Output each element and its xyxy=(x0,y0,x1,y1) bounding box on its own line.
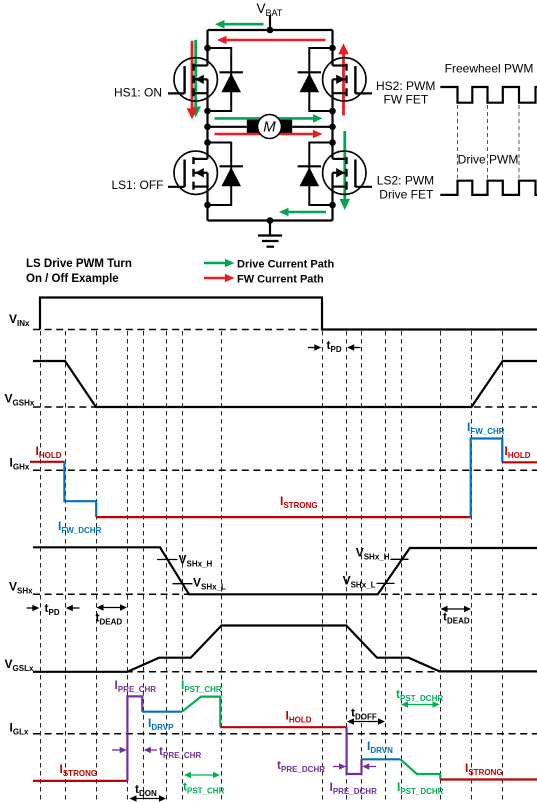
node junction right leg xyxy=(329,45,336,52)
body diode of HS2 xyxy=(298,72,321,92)
node IGLx baseline xyxy=(33,733,537,735)
annotation tDOFF xyxy=(347,706,385,725)
node VGSHx baseline xyxy=(33,406,537,408)
waveform VINx xyxy=(40,298,537,330)
svg-text:FW Current Path: FW Current Path xyxy=(237,274,324,286)
node VSHx_H tick left xyxy=(157,559,178,561)
green drive current arrow to motor xyxy=(215,117,315,120)
node VSHx_L tick left xyxy=(173,583,193,585)
node junction right leg xyxy=(329,108,336,115)
annotation tDON xyxy=(130,782,167,802)
red legend arrow FW Current Path xyxy=(204,277,226,279)
svg-text:Freewheel PWM: Freewheel PWM xyxy=(445,62,534,76)
annotation tDEAD left xyxy=(96,604,128,626)
waveform IGLx IPST_DCHR green xyxy=(400,759,440,779)
transistor LS1 xyxy=(168,151,217,194)
node VGSLx baseline xyxy=(33,671,537,673)
waveform VGSHx xyxy=(33,361,537,407)
annotation tPST_CHR xyxy=(183,772,225,796)
waveform IGHx IHOLD red left xyxy=(30,461,64,463)
waveform Freewheel PWM xyxy=(440,87,537,103)
wire left leg upper xyxy=(206,30,208,66)
node VINx baseline xyxy=(33,329,322,331)
annotation tPD upper xyxy=(308,338,361,354)
wire right leg upper xyxy=(331,30,333,66)
svg-text:M: M xyxy=(263,119,276,136)
wire dashed PWM phase connectors xyxy=(457,105,459,179)
red freewheel current arrow through HS2 xyxy=(342,53,345,115)
waveform IGLx IHOLD red middle xyxy=(220,726,346,728)
annotation tPRE_DCHR xyxy=(277,758,376,774)
svg-text:LS Drive PWM Turn: LS Drive PWM Turn xyxy=(26,258,132,270)
waveform VSHx xyxy=(33,547,537,594)
node junction left leg xyxy=(204,202,211,209)
node VSHx baseline xyxy=(33,593,537,595)
svg-text:Drive Current Path: Drive Current Path xyxy=(237,259,334,271)
waveform IGHx IFW_DCHR blue xyxy=(64,462,96,517)
wire bottom rail xyxy=(208,219,333,221)
wire HS1 body-diode branch xyxy=(208,48,232,111)
svg-text:HS2: PWM: HS2: PWM xyxy=(376,79,435,93)
waveform IGHx IFW_CHR blue pulse xyxy=(471,439,503,518)
annotation tPD lower left xyxy=(27,601,80,617)
node VSHx_H tick right xyxy=(391,558,409,560)
waveform IGHx ISTRONG red xyxy=(96,516,471,518)
node junction left leg xyxy=(204,124,211,131)
wire HS2 body-diode branch xyxy=(309,48,332,111)
ground xyxy=(258,221,282,247)
body diode of LS2 xyxy=(298,166,321,186)
waveform IGLx IPRE_CHR purple pulse xyxy=(127,696,142,781)
wire right leg middle xyxy=(331,93,333,159)
transistor LS2 xyxy=(323,151,372,194)
green drive current arrow through HS1 xyxy=(194,40,197,108)
node junction right leg xyxy=(329,139,336,146)
node junction left leg xyxy=(204,108,211,115)
svg-text:FW FET: FW FET xyxy=(384,93,429,107)
node VSHx_L tick right xyxy=(377,582,395,584)
wire LS1 body-diode branch xyxy=(208,143,232,206)
body diode of LS1 xyxy=(220,166,243,186)
wire top rail xyxy=(208,29,333,31)
svg-text:On / Off Example: On / Off Example xyxy=(26,273,119,285)
svg-text:HS1: ON: HS1: ON xyxy=(114,86,162,100)
grid vertical dashed timing lines xyxy=(40,331,42,800)
wire VBAT stub xyxy=(269,15,271,30)
wire left leg lower xyxy=(206,186,208,221)
wire left leg middle xyxy=(206,93,208,159)
svg-text:Drive FET: Drive FET xyxy=(379,187,434,201)
waveform IGLx ISTRONG red right xyxy=(440,778,537,780)
waveform IGLx IDRVN blue xyxy=(362,758,401,760)
red freewheel current arrow top rail xyxy=(226,39,326,42)
waveform IGLx ISTRONG red left xyxy=(33,780,127,782)
waveform IGHx IHOLD red right xyxy=(502,461,537,463)
transistor HS1 xyxy=(168,58,217,101)
node IGHx baseline xyxy=(33,469,537,471)
red freewheel current arrow from motor xyxy=(215,133,315,136)
node junction right leg xyxy=(329,202,336,209)
wire LS2 body-diode branch xyxy=(309,143,332,206)
svg-text:LS2: PWM: LS2: PWM xyxy=(377,173,434,187)
node junction left leg xyxy=(204,45,211,52)
motor M leads and terminals xyxy=(208,120,333,134)
node ground junction xyxy=(267,217,274,224)
wire right leg lower xyxy=(331,186,333,221)
transistor HS2 xyxy=(323,58,372,101)
motor M body xyxy=(258,115,282,139)
annotation tDEAD right xyxy=(441,606,472,626)
waveform VGSLx xyxy=(33,626,537,672)
svg-text:LS1: OFF: LS1: OFF xyxy=(111,178,163,192)
waveform Drive PWM xyxy=(440,181,537,195)
green drive current arrow bottom rail xyxy=(288,211,327,214)
node VBAT junction xyxy=(267,27,274,34)
annotation tPST_DCHR xyxy=(396,687,443,708)
node junction right leg xyxy=(329,124,336,131)
green legend arrow Drive Current Path xyxy=(204,262,226,264)
waveform IGLx IPRE_DCHR purple xyxy=(347,727,362,774)
annotation tPRE_CHR xyxy=(112,744,201,760)
red freewheel current arrow through HS1 xyxy=(191,41,194,110)
green drive current arrow top rail xyxy=(224,23,264,26)
node junction left leg xyxy=(204,139,211,146)
green drive current arrow through LS2 xyxy=(343,131,346,200)
waveform IGLx IPST_CHR green xyxy=(182,697,220,728)
waveform IGLx IDRVP blue xyxy=(142,711,182,713)
body diode of HS1 xyxy=(220,72,243,92)
